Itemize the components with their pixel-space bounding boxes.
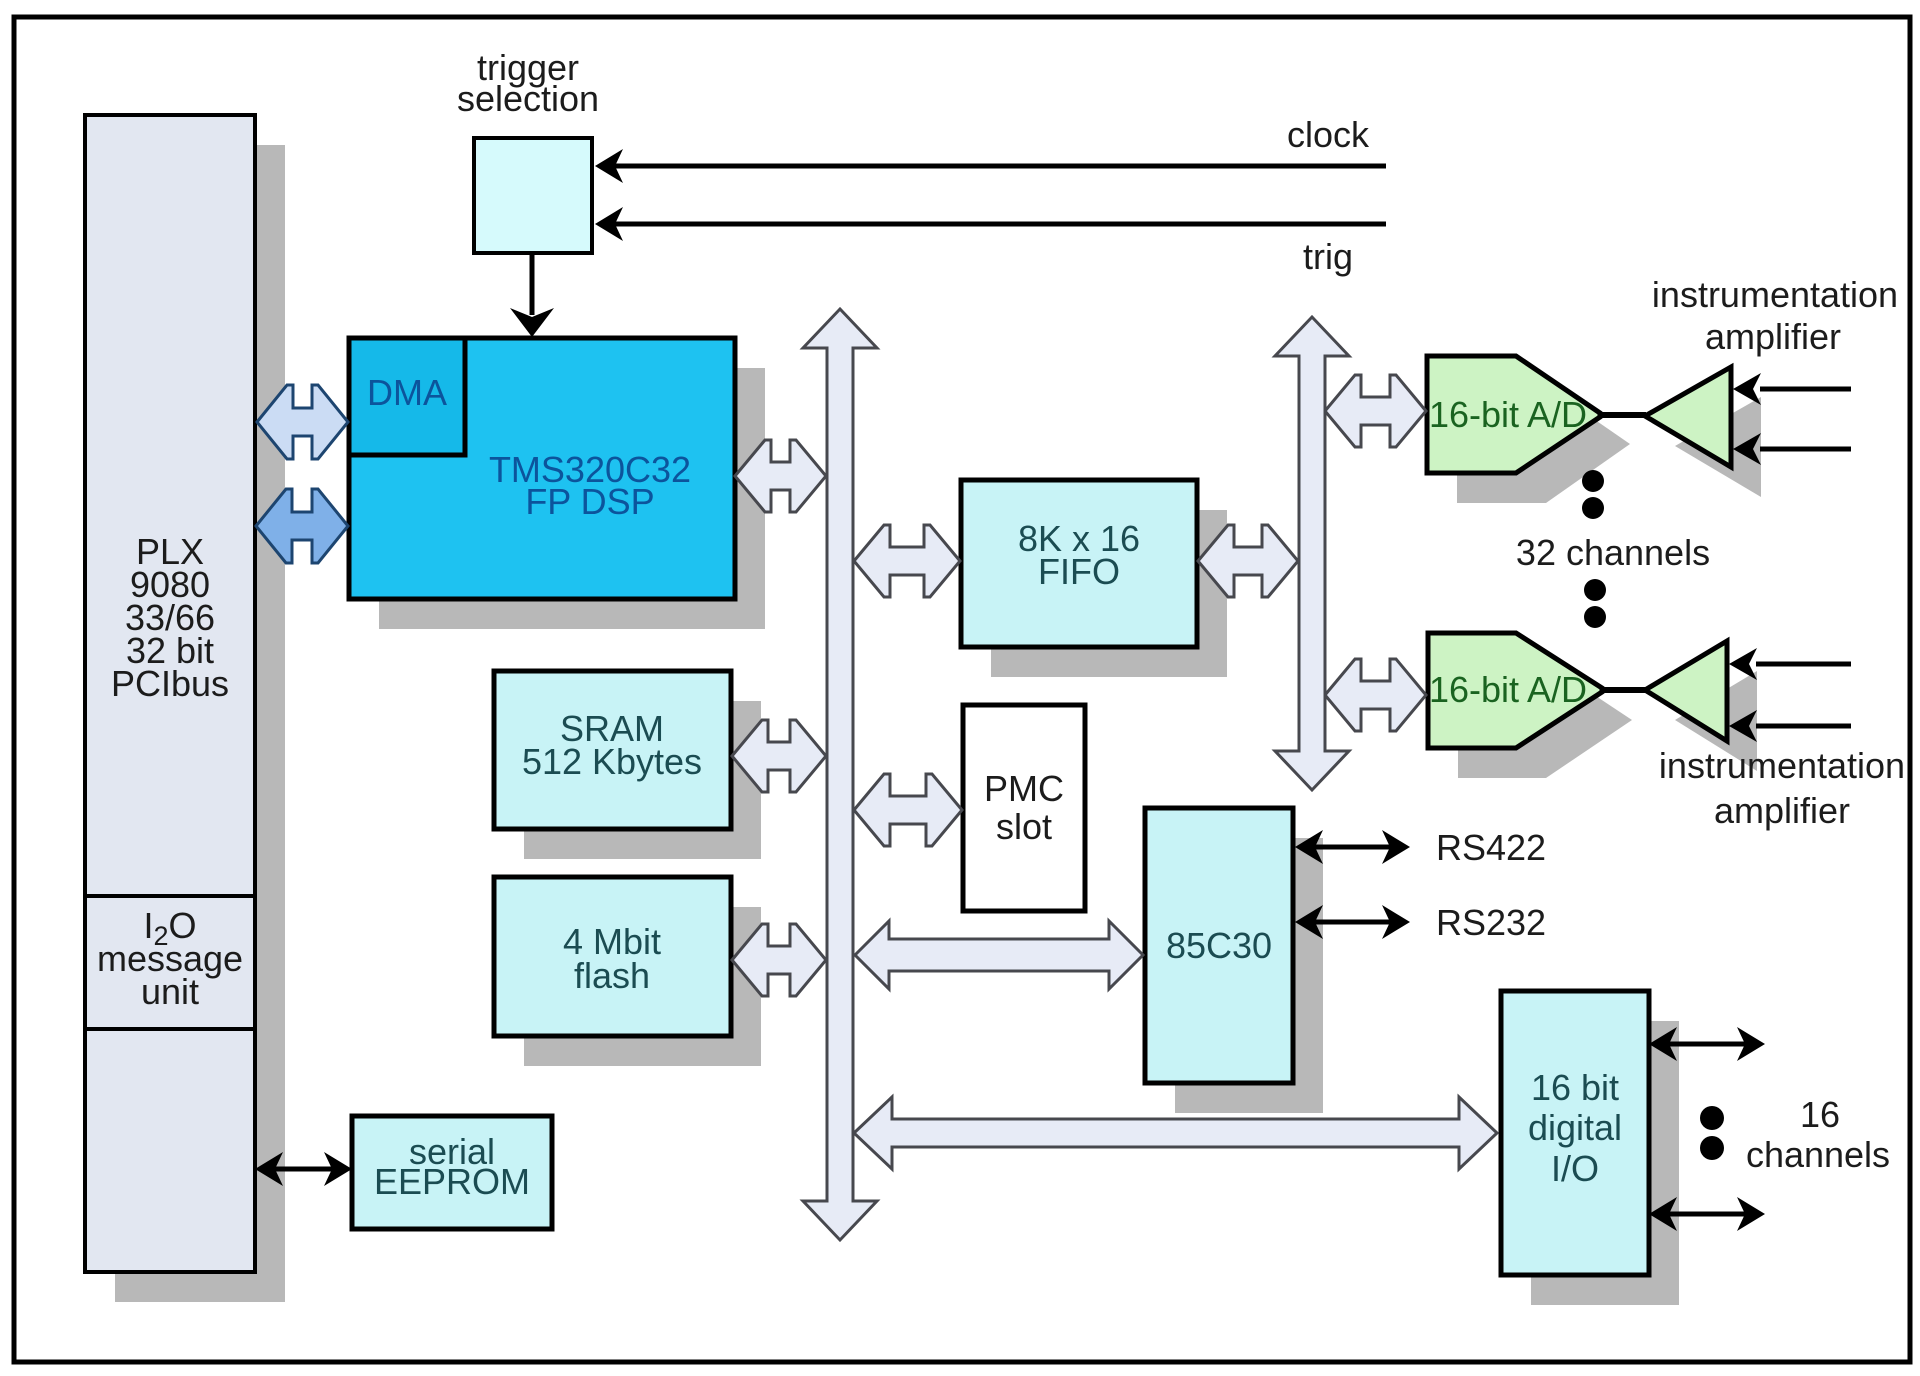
amp1 input wire -: [1760, 447, 1851, 452]
svg-text:DMA: DMA: [367, 372, 447, 413]
digital IO upper wire: [1664, 1042, 1750, 1047]
bus arrow left bus-FIFO: [854, 525, 960, 597]
amp2 input wire +: [1756, 662, 1851, 667]
SRAM 512 Kbytes: [494, 671, 731, 829]
PMC slot: [963, 705, 1085, 911]
instrumentation amplifier 2 shadow: [1675, 671, 1757, 771]
RS422 wire: [1310, 845, 1394, 850]
bus arrow left bus-PMC: [854, 774, 962, 846]
I2O message unit section: [85, 894, 255, 898]
instrumentation amplifier 1 shadow: [1675, 397, 1761, 497]
bus arrow left bus-85C30: [855, 921, 1143, 989]
clock wire: [614, 164, 1386, 169]
32 channels dots lower: [1584, 579, 1606, 601]
bus arrow right bus-AD1: [1325, 375, 1426, 447]
instrumentation amplifier 2: [1645, 641, 1727, 741]
bus arrow flash-left bus: [732, 924, 826, 996]
left local bus: [803, 309, 877, 1240]
svg-text:triggerselection: triggerselection: [457, 47, 599, 119]
8Kx16 FIFO shadow: [991, 510, 1227, 677]
instrumentation amplifier 1: [1645, 367, 1731, 467]
digital IO lower wire: [1664, 1212, 1750, 1217]
bus arrow DSP-left bus: [735, 440, 826, 512]
TMS320C32 FP DSP U2: [349, 338, 735, 599]
svg-text:85C30: 85C30: [1166, 925, 1272, 966]
svg-text:PMCslot: PMCslot: [984, 768, 1064, 847]
wire trigger selection to DSP: [530, 253, 535, 315]
svg-text:RS422: RS422: [1436, 827, 1546, 868]
amp1 input wire +: [1760, 387, 1851, 392]
8Kx16 FIFO: [961, 480, 1197, 647]
4 Mbit flash: [494, 877, 731, 1036]
svg-text:RS232: RS232: [1436, 902, 1546, 943]
4Mbit flash shadow: [524, 907, 761, 1066]
SRAM 512K shadow: [524, 701, 761, 859]
svg-text:4 Mbitflash: 4 Mbitflash: [563, 921, 661, 996]
PLX 9080 PCI bridge U1: [85, 115, 255, 1272]
PCI bus arrow PLX-DSP lower: [256, 489, 348, 563]
16-bit A/D converter 2 shadow: [1458, 663, 1632, 778]
16 bit digital IO shadow: [1531, 1021, 1679, 1305]
svg-text:trig: trig: [1303, 236, 1353, 277]
bus arrow left bus-digital IO: [854, 1097, 1497, 1169]
svg-text:clock: clock: [1287, 114, 1370, 155]
amp2 input wire -: [1756, 724, 1851, 729]
PLX 9080 PCI bridge U1 shadow: [115, 145, 285, 1302]
bus arrow FIFO-right bus: [1198, 525, 1298, 597]
serial EEPROM: [352, 1116, 552, 1229]
bus arrow right bus-AD2: [1325, 659, 1426, 731]
PCI bus arrow PLX-DSP upper: [257, 385, 348, 459]
16-bit A/D converter 1: [1427, 356, 1600, 473]
serial EEPROM wire: [270, 1167, 337, 1172]
trigger selection box: [474, 138, 592, 253]
right data bus: [1275, 317, 1349, 790]
16-bit A/D converter 2: [1428, 633, 1602, 748]
32 channels dots upper: [1582, 470, 1604, 492]
node A/D2-amp2: [1600, 687, 1646, 693]
svg-text:16-bit A/D: 16-bit A/D: [1429, 669, 1587, 710]
TMS320C32 FP DSP U2 shadow: [379, 368, 765, 629]
node A/D1-amp1: [1598, 412, 1646, 418]
16 channels dots: [1700, 1106, 1724, 1130]
bus arrow SRAM-left bus: [732, 720, 826, 792]
RS232 wire: [1310, 920, 1394, 925]
16 bit digital IO: [1501, 991, 1649, 1275]
DMA block: [349, 338, 465, 455]
svg-text:32 channels: 32 channels: [1516, 532, 1710, 573]
trig wire: [614, 222, 1386, 227]
85C30 SCC shadow: [1175, 838, 1323, 1113]
svg-text:16-bit A/D: 16-bit A/D: [1429, 394, 1587, 435]
85C30 SCC: [1145, 808, 1293, 1083]
16-bit A/D converter 1 shadow: [1457, 386, 1630, 503]
